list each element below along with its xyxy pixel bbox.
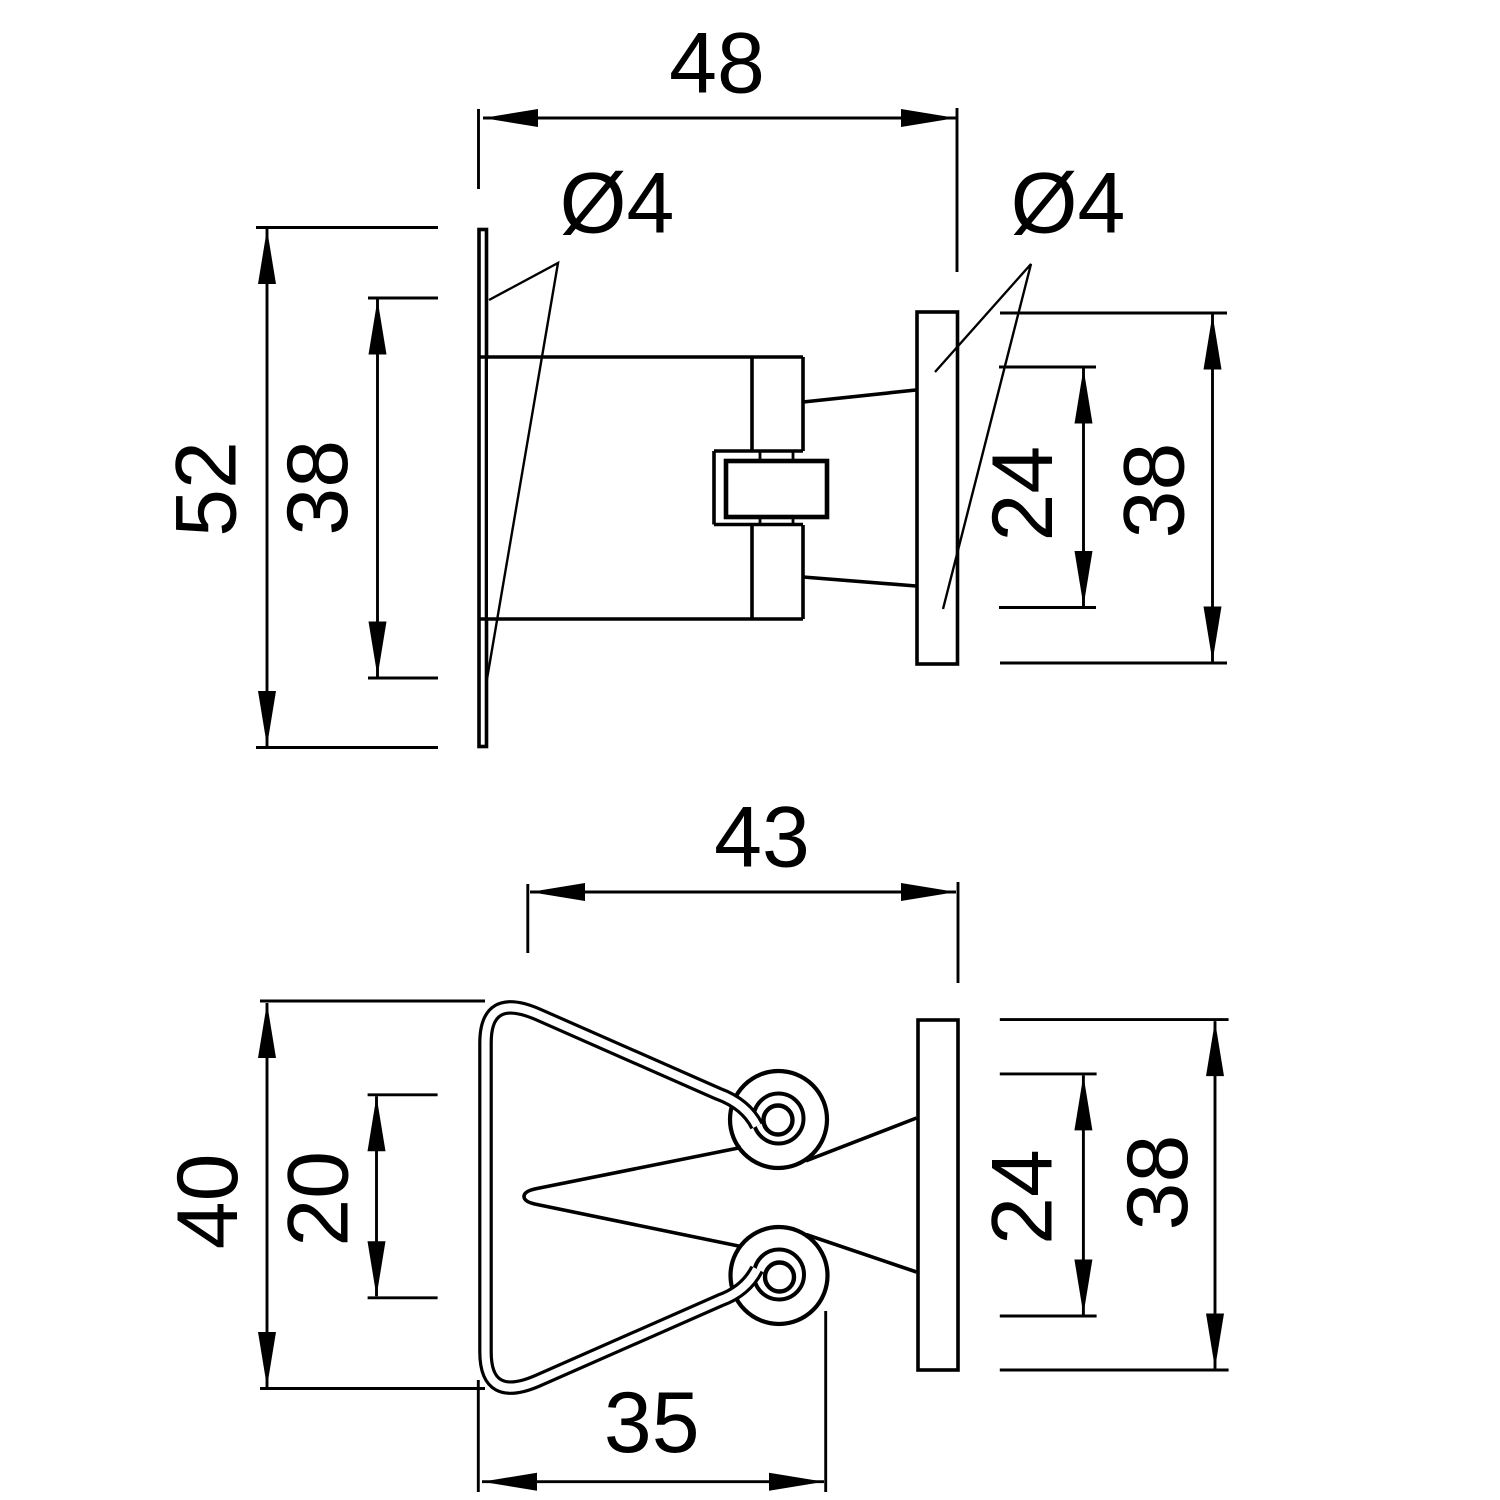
24R arrow top — [1075, 369, 1093, 424]
40 extension line top — [260, 1000, 485, 1003]
48 dimension line — [483, 117, 956, 120]
rear flange (side view) — [917, 312, 958, 664]
38R extension line bottom — [1000, 662, 1227, 665]
dimension 24 bottom — [974, 1074, 1096, 1316]
svg-text:48: 48 — [669, 16, 765, 112]
24R extension line top — [999, 366, 1096, 369]
upper grommet coil inner — [764, 1106, 793, 1135]
20 extension line top — [368, 1093, 438, 1096]
43 extension line left — [526, 884, 529, 953]
hole callout left leader — [487, 263, 558, 679]
38B dimension line — [1214, 1021, 1217, 1368]
38B arrow bottom — [1206, 1314, 1224, 1369]
wall plate (edge view) — [479, 230, 487, 747]
neck top edge (bottom view) — [806, 1118, 917, 1161]
24B arrow bottom — [1074, 1260, 1092, 1315]
svg-text:Ø4: Ø4 — [560, 156, 675, 252]
pivot pin ticks — [760, 452, 793, 523]
svg-text:52: 52 — [158, 441, 254, 537]
dimension 48 — [479, 16, 958, 273]
20 dimension line — [375, 1096, 378, 1296]
dimension 24 right top — [975, 367, 1096, 608]
52 dimension line — [266, 229, 269, 746]
svg-text:Ø4: Ø4 — [1011, 156, 1126, 252]
35 arrow right — [769, 1473, 824, 1491]
38R arrow bottom — [1204, 607, 1222, 662]
dimension 52 — [158, 228, 438, 748]
52 extension line top — [256, 226, 438, 229]
rear flange (bottom view) — [918, 1020, 958, 1370]
48 extension line right — [956, 108, 959, 272]
38L extension line top — [368, 297, 438, 300]
35 dimension line — [482, 1480, 824, 1483]
spring wire bail — [486, 1007, 758, 1387]
svg-text:38: 38 — [1107, 443, 1203, 539]
38L extension line bottom — [368, 677, 438, 680]
24B arrow top — [1074, 1075, 1092, 1130]
40 dimension line — [266, 1003, 269, 1387]
svg-text:20: 20 — [271, 1151, 367, 1247]
24B extension line top — [1000, 1072, 1097, 1075]
38R extension line top — [1000, 312, 1227, 315]
clip upper tab — [752, 357, 803, 451]
svg-text:38: 38 — [270, 440, 366, 536]
clip bracket — [714, 451, 803, 525]
40 extension line bottom — [260, 1387, 485, 1390]
38L arrow top — [369, 300, 387, 355]
35 extension line left — [477, 1380, 480, 1492]
40 arrow bottom — [258, 1332, 276, 1387]
48 arrow right — [901, 109, 956, 127]
38L arrow bottom — [369, 622, 387, 677]
35 arrow left — [482, 1473, 537, 1491]
clip lower tab — [752, 525, 803, 619]
24R extension line bottom — [999, 606, 1096, 609]
dimension 38 right top — [1000, 313, 1227, 663]
hole callout right leader — [935, 264, 1031, 609]
dimension 43 — [528, 790, 958, 984]
dimension 38 bottom — [1000, 1020, 1229, 1370]
48 extension line left — [477, 109, 480, 189]
lamp body outline — [478, 357, 803, 619]
upper grommet outer circle — [730, 1071, 827, 1168]
24B extension line bottom — [1000, 1315, 1097, 1318]
lower grommet coil outer — [754, 1250, 804, 1300]
dimension 38 left — [270, 298, 438, 678]
20 extension line bottom — [368, 1296, 438, 1299]
38L dimension line — [376, 300, 379, 677]
35 extension line right — [824, 1311, 827, 1492]
svg-text:38: 38 — [1110, 1135, 1206, 1231]
52 arrow top — [258, 229, 276, 284]
43 dimension line — [530, 891, 956, 894]
lower grommet outer circle — [731, 1227, 828, 1324]
neck top edge (side view) — [803, 390, 916, 402]
43 arrow left — [530, 883, 585, 901]
20 arrow top — [368, 1096, 386, 1151]
43 arrow right — [901, 883, 956, 901]
38R arrow top — [1204, 315, 1222, 370]
48 arrow left — [483, 109, 538, 127]
24B dimension line — [1082, 1075, 1085, 1314]
neck bottom edge (bottom view) — [806, 1235, 917, 1273]
38B arrow top — [1206, 1021, 1224, 1076]
52 extension line bottom — [256, 746, 438, 749]
V-notch wedge — [524, 1148, 741, 1247]
38R dimension line — [1211, 315, 1214, 662]
dimension 40 — [160, 1001, 485, 1389]
24R dimension line — [1082, 369, 1085, 607]
24R arrow bottom — [1075, 551, 1093, 606]
upper grommet coil outer — [754, 1094, 804, 1144]
dimension 20 — [271, 1095, 438, 1298]
svg-text:40: 40 — [160, 1154, 256, 1250]
lower grommet coil inner — [765, 1263, 794, 1292]
svg-text:35: 35 — [604, 1375, 700, 1471]
38B extension line top — [1000, 1018, 1229, 1021]
43 extension line right — [957, 882, 960, 983]
38B extension line bottom — [1000, 1369, 1229, 1372]
dimension 35 — [478, 1311, 825, 1492]
52 arrow bottom — [258, 691, 276, 746]
neck bottom edge (side view) — [803, 577, 916, 586]
svg-text:24: 24 — [975, 446, 1071, 542]
20 arrow bottom — [368, 1241, 386, 1296]
svg-text:43: 43 — [714, 790, 810, 886]
pivot block — [726, 461, 827, 517]
40 arrow top — [258, 1003, 276, 1058]
svg-text:24: 24 — [974, 1149, 1070, 1245]
